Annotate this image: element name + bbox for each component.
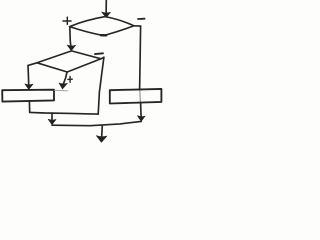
- wire D2 bottom vertex down: [63, 72, 67, 84]
- arrowhead right branch onto bus: [137, 116, 145, 122]
- wire right branch below right box: [140, 103, 143, 117]
- label + of D2: [68, 77, 72, 83]
- decision diamond D2: [37, 51, 101, 72]
- arrowhead T-drop onto bus: [48, 119, 56, 125]
- wire left box bottom drop: [28, 102, 30, 113]
- process box right: [110, 89, 162, 104]
- wedge at D1 bottom vertex: [101, 34, 107, 36]
- arrowhead into D2 top: [67, 45, 76, 51]
- faint overshoot of left box top edge: [55, 89, 68, 92]
- label - of D1: [138, 18, 145, 20]
- wire D1 left vertex down to D2: [70, 27, 71, 47]
- wire exit shaft: [101, 126, 104, 137]
- process box left: [2, 90, 54, 102]
- wire right branch vertical down to right box: [140, 26, 141, 90]
- wire entry shaft: [105, 0, 107, 14]
- arrowhead into left box top (right): [59, 83, 67, 89]
- wire D1 right vertex to right branch corner: [134, 25, 141, 27]
- wire T-drop to bus: [51, 113, 53, 120]
- wire D2 right vertex right then down: [98, 57, 104, 114]
- decision diamond D1: [70, 17, 134, 36]
- wire D2 left vertex left then down: [28, 63, 37, 85]
- wire horizontal collector: [30, 112, 99, 114]
- label - of D2: [95, 52, 103, 55]
- label + of D1: [63, 17, 71, 24]
- wire bus line: [52, 121, 141, 125]
- arrowhead exit: [96, 136, 107, 143]
- arrowhead entry into D1: [102, 12, 111, 18]
- arrowhead into left box top (left): [25, 84, 33, 90]
- wire faint through right box: [139, 91, 142, 103]
